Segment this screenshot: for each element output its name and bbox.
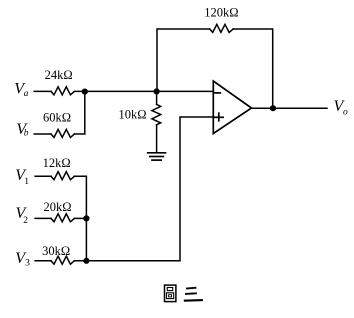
wire Vb up to node A [74, 91, 84, 134]
svg-text:a: a [24, 89, 29, 99]
svg-text:b: b [24, 128, 29, 138]
op-amp plus sign [215, 116, 224, 118]
op-amp U1 triangle [213, 81, 251, 134]
svg-text:1: 1 [24, 177, 29, 187]
wire V1 lead [35, 175, 51, 177]
caption: character tu (figure) [165, 285, 176, 302]
caption: character san (three) [184, 288, 203, 301]
junction dot output node [270, 105, 276, 111]
svg-text:24kΩ: 24kΩ [45, 68, 73, 82]
svg-text:3: 3 [25, 259, 30, 269]
junction dot V2 bus [83, 215, 89, 221]
wire V1 to bus, bus down [74, 176, 86, 260]
junction dot inverting node (feedback/10k) [154, 88, 160, 94]
wire Va node to op-amp inverting input [74, 90, 213, 92]
wire Vb lead [34, 133, 51, 135]
resistor Rb 60k zigzag [51, 129, 74, 137]
svg-text:10kΩ: 10kΩ [118, 108, 146, 122]
svg-text:120kΩ: 120kΩ [204, 6, 238, 20]
svg-text:2: 2 [23, 216, 28, 226]
wire V3 lead [35, 260, 51, 262]
wire V3 node to riser, riser up to non-inverting input [74, 117, 213, 261]
resistor R1 12k zigzag [51, 172, 74, 180]
resistor R 10k vertical: lead from node, zigzag, lead to ground [156, 91, 158, 104]
svg-text:20kΩ: 20kΩ [43, 200, 71, 214]
svg-text:30kΩ: 30kΩ [42, 244, 70, 258]
wire feedback right side down to output node [233, 29, 273, 108]
svg-text:o: o [343, 108, 348, 118]
wire output to Vo [252, 107, 328, 109]
resistor R3 30k zigzag [51, 256, 74, 264]
svg-text:60kΩ: 60kΩ [43, 111, 71, 125]
op-amp minus sign [215, 92, 220, 94]
ground [148, 152, 166, 154]
node A junction dot (24k/60k) [82, 89, 88, 95]
resistor R2 20k zigzag [51, 214, 74, 222]
wire feedback loop: node A up, across top, down to output [157, 29, 210, 91]
wire V2 lead [35, 217, 51, 219]
resistor Ra 24k zigzag [51, 87, 74, 95]
wire V2 to bus [74, 217, 86, 219]
junction dot V3 bus [83, 258, 89, 264]
resistor R_f 120k zigzag [210, 24, 233, 32]
svg-text:12kΩ: 12kΩ [43, 156, 71, 170]
wire Va lead [34, 90, 51, 92]
